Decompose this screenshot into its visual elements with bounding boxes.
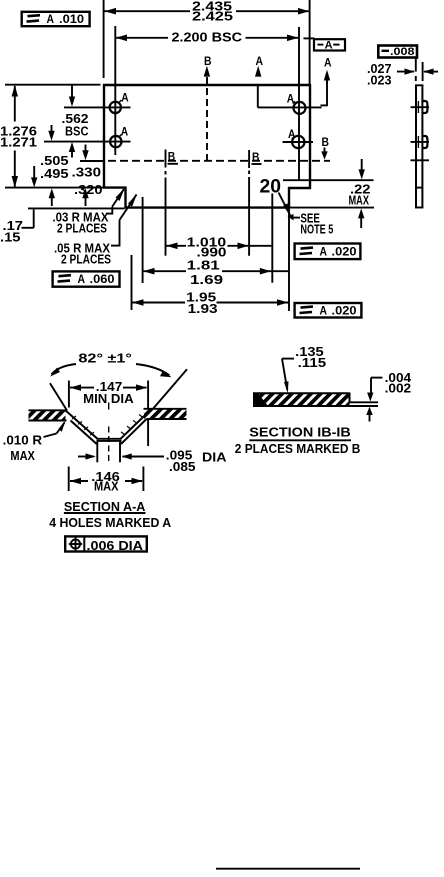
svg-text:2 PLACES MARKED B: 2 PLACES MARKED B <box>235 441 360 456</box>
section label B on right tick <box>252 150 262 164</box>
note .010 R MAX with leader <box>3 421 66 463</box>
svg-text:A: A <box>256 54 264 68</box>
section label B on left tick <box>168 150 179 164</box>
SECTION A-A : countersink right wall <box>120 409 152 444</box>
dimension .505 / .495 <box>40 125 69 206</box>
extension of top edge to left <box>5 84 101 86</box>
dimension 2.200 BSC <box>115 31 298 45</box>
svg-text:A: A <box>78 272 86 286</box>
dimension .562 BSC <box>62 86 89 158</box>
svg-text:DIA: DIA <box>202 451 227 465</box>
svg-text:82° ±1°: 82° ±1° <box>78 352 132 366</box>
dimension 1.81 / 1.69 <box>143 258 289 286</box>
svg-text:A: A <box>320 303 328 317</box>
balloon note 20 with leader <box>260 176 291 216</box>
extension line 1.81 right (x=272.3) <box>271 194 273 283</box>
svg-text:.495: .495 <box>40 167 69 181</box>
section label A top (x=258) <box>255 54 263 77</box>
svg-text:.330: .330 <box>72 166 102 180</box>
side view hidden line tick <box>411 159 430 161</box>
SECTION B-B : dimension .135 / .115 with leader <box>282 345 326 393</box>
svg-text:.15: .15 <box>0 231 21 245</box>
dimension 2.435 / 2.425 <box>105 0 310 24</box>
feature control frame straightness .008 (top right) <box>378 46 417 72</box>
note SEE NOTE 5 with leader <box>288 212 334 237</box>
extension line 1.81 left (x=142.5) <box>142 197 144 283</box>
svg-text:.320: .320 <box>74 183 103 197</box>
dimension .146 MAX <box>69 467 144 494</box>
right hole 2 <box>292 136 304 148</box>
svg-text:B: B <box>322 135 330 149</box>
left hole 1 centerline horizontal <box>64 106 131 108</box>
right hole 2 centerline horizontal <box>283 141 314 143</box>
svg-text:.006 DIA: .006 DIA <box>87 539 144 553</box>
feature control frame parallelism A .060 <box>53 271 120 286</box>
side view hole 1 tick <box>411 106 430 108</box>
section label B right middle (x=324.5) <box>321 135 329 160</box>
left hole 2 centerline horizontal <box>44 141 131 143</box>
svg-text:A: A <box>47 12 55 26</box>
SECTION A-A : plate cross-section right band (hatched) <box>144 409 187 419</box>
hidden centerline vertical B (x=207) <box>206 77 208 161</box>
svg-text:A: A <box>121 126 129 139</box>
svg-text:B: B <box>252 150 260 164</box>
extension line 1.95 left (x=131.5) <box>131 255 133 310</box>
right hole 1 centerline horizontal with bracket <box>257 85 259 107</box>
hidden line horizontal B (y=160.8) <box>108 160 330 162</box>
section tick B right / 1.010 right extension (x=249.1) <box>248 150 250 168</box>
bottom rule line <box>216 868 360 870</box>
svg-text:1.81: 1.81 <box>187 258 220 272</box>
dimension .330 / .320 <box>72 145 104 207</box>
svg-text:B: B <box>168 150 176 164</box>
svg-text:.008: .008 <box>390 46 415 58</box>
datum flag -A- <box>304 38 346 51</box>
svg-text:.002: .002 <box>385 382 412 396</box>
extension of bottom edge to right (.22 MAX) <box>290 207 374 209</box>
svg-text:.060: .060 <box>90 272 115 286</box>
svg-text:A: A <box>325 39 333 51</box>
hole label A (right hole 1) <box>287 92 295 105</box>
dimension .095 / .085 DIA <box>78 448 227 474</box>
extension line part width left (x=104 above top edge) <box>103 0 105 78</box>
side view hole 2 tick <box>411 141 430 143</box>
dimension .147 MIN DIA <box>69 380 148 446</box>
svg-text:BSC: BSC <box>65 125 89 139</box>
dimension 1.276 / 1.271 <box>0 85 37 188</box>
SECTION A-A : hole at cone apex <box>97 403 122 465</box>
SECTION B-B : bar cross-section (hatched) <box>253 393 378 407</box>
svg-text:.023: .023 <box>367 73 392 87</box>
svg-text:A: A <box>121 92 129 105</box>
svg-text:.010: .010 <box>59 12 84 26</box>
hole label A (left hole 2) <box>119 126 129 139</box>
svg-text:A: A <box>324 56 332 70</box>
svg-text:.020: .020 <box>332 245 357 259</box>
svg-text:2.425: 2.425 <box>192 10 233 24</box>
section label B top (x=207) <box>204 54 212 77</box>
left holes centerline vertical (2.200 BSC left extension) <box>114 26 116 155</box>
note .03 R MAX 2 PLACES with leader <box>53 188 125 236</box>
svg-text:2 PLACES: 2 PLACES <box>61 253 111 267</box>
svg-text:SECTION IB-IB: SECTION IB-IB <box>249 425 350 440</box>
dimension 1.010 / .990 <box>166 235 272 259</box>
svg-text:2 PLACES: 2 PLACES <box>57 222 107 236</box>
svg-text:.115: .115 <box>298 356 327 370</box>
note .05 R MAX 2 PLACES with leader <box>54 194 137 267</box>
svg-text:1.93: 1.93 <box>188 302 218 316</box>
svg-text:1.271: 1.271 <box>0 136 37 150</box>
svg-text:.020: .020 <box>332 304 357 318</box>
side view step tick <box>416 187 424 189</box>
svg-text:2.200 BSC: 2.200 BSC <box>172 31 243 45</box>
side view hole boss 2 <box>423 136 428 148</box>
left hole 2 <box>110 136 121 147</box>
part outline front view <box>103 84 311 209</box>
svg-text:SECTION A-A: SECTION A-A <box>64 499 145 514</box>
dimension .027 / .023 <box>367 62 438 87</box>
extension line part width right (x=310 above top edge) <box>309 0 311 84</box>
svg-text:MAX: MAX <box>10 449 35 463</box>
section label A top (x=327) <box>324 56 332 84</box>
extension of bottom edge to left <box>28 207 125 209</box>
svg-text:MAX: MAX <box>94 480 119 494</box>
svg-text:MAX: MAX <box>349 193 370 207</box>
svg-text:20: 20 <box>260 176 282 197</box>
feature control frame parallelism A .020 (lower) <box>295 303 362 318</box>
dimension .17 / .15 with bracket <box>0 166 37 245</box>
right hole 1 <box>294 102 306 114</box>
dimension .004 / .002 with bracket <box>366 371 411 422</box>
SECTION A-A : plate cross-section left band (hatched) <box>29 410 67 420</box>
svg-text:NOTE 5: NOTE 5 <box>300 222 333 236</box>
extension line 1.95 right (x=289 below part) <box>288 208 290 311</box>
SECTION A-A : angle dimension 82 deg <box>50 352 172 378</box>
svg-text:1.69: 1.69 <box>190 273 223 287</box>
side view hole boss 1 <box>423 101 428 113</box>
side profile view <box>411 85 430 208</box>
SECTION A-A : countersink left wall <box>65 410 98 444</box>
dimension .22 MAX <box>349 159 371 228</box>
feature control frame parallelism A .020 (upper) <box>295 244 361 260</box>
label SECTION A-A <box>64 499 146 514</box>
right holes centerline vertical (2.200 BSC right extension) <box>298 27 300 180</box>
extension of bottom left edge to left <box>5 187 103 189</box>
SECTION A-A : countersink slope extension lines <box>50 383 67 410</box>
svg-text:.085: .085 <box>169 460 196 474</box>
label SECTION IB-IB <box>249 425 351 441</box>
dimension 1.95 / 1.93 <box>132 291 289 317</box>
section tick B left (x=165.5) <box>165 150 167 168</box>
svg-text:B: B <box>204 54 212 68</box>
svg-text:.505: .505 <box>40 154 69 168</box>
feature control frame parallelism A .010 (top left) <box>22 12 90 26</box>
svg-text:.010 R: .010 R <box>3 433 43 447</box>
svg-text:A: A <box>320 244 328 258</box>
hole label A (right hole 2) <box>288 128 296 141</box>
hole label A (left hole 1) <box>119 92 129 105</box>
feature control frame position .006 DIA <box>65 536 147 552</box>
left hole 1 <box>110 102 121 113</box>
step line .22 MAX upper <box>283 179 374 181</box>
svg-text:4 HOLES MARKED A: 4 HOLES MARKED A <box>49 515 171 530</box>
